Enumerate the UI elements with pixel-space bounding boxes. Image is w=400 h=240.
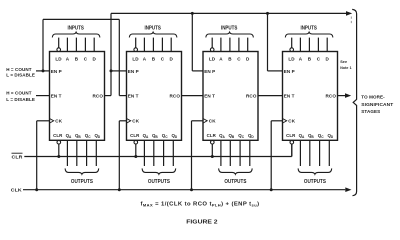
- svg-text:LD: LD: [209, 56, 216, 61]
- wire RCO1 to U2 ENP: [111, 70, 127, 72]
- CLR pin U4: [290, 140, 294, 156]
- svg-text:EN P: EN P: [51, 69, 62, 74]
- output stubs U1 (QA-QD): [67, 140, 96, 166]
- wire ENP bus (line A): [111, 11, 352, 16]
- svg-text:EN P: EN P: [204, 69, 215, 74]
- brace to more-significant stages: [352, 9, 356, 195]
- output stubs U4 (QA-QD): [300, 140, 329, 166]
- svg-text:EN T: EN T: [284, 94, 295, 99]
- svg-text:RCO: RCO: [92, 94, 103, 99]
- CK wire U4: [270, 121, 283, 191]
- svg-text:OUTPUTS: OUTPUTS: [304, 179, 327, 185]
- wire ENP bus to U3 ENP: [192, 13, 203, 71]
- wire U4 RCO out: [338, 93, 352, 98]
- svg-text:CLR: CLR: [286, 133, 296, 138]
- svg-text:EN P: EN P: [128, 69, 139, 74]
- svg-text:TO MORE-: TO MORE-: [361, 94, 385, 99]
- svg-text:RCO: RCO: [246, 94, 257, 99]
- svg-text:INPUTS: INPUTS: [67, 25, 84, 31]
- svg-text:OUTPUTS: OUTPUTS: [224, 179, 247, 185]
- svg-text:C: C: [317, 56, 321, 61]
- svg-text:CLR: CLR: [130, 133, 140, 138]
- svg-text:CLR: CLR: [207, 133, 217, 138]
- svg-text:B: B: [152, 56, 156, 61]
- svg-text:RCO: RCO: [325, 94, 336, 99]
- note: See Note 1: [340, 59, 352, 70]
- wire line B (control to U2 ENT): [43, 18, 119, 20]
- caption FIGURE 2: [186, 220, 217, 226]
- CK wire U3: [190, 121, 203, 191]
- ENP enable label: [6, 67, 35, 78]
- svg-text:D: D: [169, 56, 173, 61]
- wire ENP control riser: [42, 19, 44, 71]
- outputs brace U2: [142, 168, 176, 184]
- counter U1: [50, 52, 105, 141]
- input stubs U1 (LD bubble, A-D): [57, 38, 94, 52]
- input stubs U2 (LD bubble, A-D): [134, 38, 171, 52]
- counter U3: [203, 52, 258, 141]
- svg-text:LD: LD: [132, 56, 139, 61]
- svg-text:SIGNIFICANT: SIGNIFICANT: [361, 102, 393, 107]
- svg-text:INPUTS: INPUTS: [221, 25, 238, 31]
- svg-text:OUTPUTS: OUTPUTS: [71, 179, 94, 185]
- svg-text:EN P: EN P: [284, 69, 295, 74]
- svg-text:INPUTS: INPUTS: [144, 25, 161, 31]
- svg-text:A: A: [299, 56, 303, 61]
- svg-text:C: C: [161, 56, 165, 61]
- svg-text:See: See: [340, 59, 348, 64]
- counter U4: [283, 52, 338, 141]
- CK wire U2: [118, 121, 127, 191]
- outputs brace U3: [219, 168, 253, 184]
- svg-text:CK: CK: [209, 119, 216, 124]
- CK wire U1: [35, 121, 49, 191]
- svg-text:D: D: [246, 56, 250, 61]
- svg-text:B: B: [308, 56, 312, 61]
- CLR pin U2: [134, 140, 138, 158]
- CLR pin U3: [211, 140, 215, 158]
- svg-text:CK: CK: [55, 119, 62, 124]
- svg-text:LD: LD: [55, 56, 62, 61]
- outputs brace U1: [65, 168, 99, 184]
- svg-text:C: C: [237, 56, 241, 61]
- CLK label: [11, 188, 22, 194]
- svg-text:B: B: [228, 56, 232, 61]
- svg-text:STAGES: STAGES: [361, 109, 380, 114]
- CLR bus: [24, 144, 292, 157]
- svg-text:CK: CK: [288, 119, 295, 124]
- svg-text:LD: LD: [288, 56, 295, 61]
- svg-text:A: A: [143, 56, 147, 61]
- svg-text:A: A: [66, 56, 70, 61]
- svg-text:Note 1: Note 1: [340, 65, 352, 70]
- counter U2: [127, 52, 182, 141]
- svg-text:EN T: EN T: [51, 94, 62, 99]
- CLK bus: [23, 187, 352, 192]
- node RCO1-ENP2 junction: [110, 69, 113, 72]
- svg-text:D: D: [92, 56, 96, 61]
- CLR pin U1: [57, 140, 61, 158]
- svg-text:RCO: RCO: [169, 94, 180, 99]
- ENT enable label: [6, 91, 35, 103]
- wire ENT control to U1 ENT: [36, 95, 50, 97]
- svg-text:L = DISABLE: L = DISABLE: [6, 97, 35, 102]
- wire U2 ENT riser: [119, 19, 126, 95]
- inputs brace U1: [52, 25, 100, 37]
- wire ENP control to U1 ENP: [36, 70, 50, 72]
- svg-text:CLR: CLR: [53, 133, 63, 138]
- inputs brace U4: [285, 25, 333, 37]
- svg-text:H = COUNT: H = COUNT: [6, 67, 32, 72]
- input stubs U3 (LD bubble, A-D): [210, 38, 247, 52]
- output stubs U3 (QA-QD): [221, 140, 250, 166]
- svg-text:C: C: [84, 56, 88, 61]
- wire U3 RCO to U4 ENT: [258, 95, 283, 97]
- formula fMAX: [141, 201, 260, 207]
- inputs brace U2: [129, 25, 177, 37]
- node ENP control junction: [42, 69, 45, 72]
- inputs brace U3: [206, 25, 254, 37]
- svg-text:D: D: [325, 56, 329, 61]
- svg-text:B: B: [75, 56, 79, 61]
- svg-text:CK: CK: [132, 119, 139, 124]
- svg-text:INPUTS: INPUTS: [300, 25, 317, 31]
- wire ENP bus to U4 ENP: [268, 13, 283, 71]
- svg-text:CLK: CLK: [11, 188, 22, 194]
- input stubs U4 (LD bubble, A-D): [290, 38, 327, 52]
- svg-text:FIGURE 2: FIGURE 2: [186, 220, 217, 226]
- CLR label: [12, 153, 23, 160]
- node ENP bus to U4: [266, 12, 269, 15]
- svg-text:H = COUNT: H = COUNT: [6, 91, 32, 96]
- dashed leader to note 1: [350, 17, 352, 25]
- outputs brace U4: [298, 168, 332, 184]
- svg-text:fMAX = 1/(CLK to RCO tPLH) + (: fMAX = 1/(CLK to RCO tPLH) + (ENP tsu): [141, 201, 260, 207]
- svg-text:EN T: EN T: [204, 94, 215, 99]
- node ENP bus to U3: [191, 12, 194, 15]
- label TO MORE-SIGNIFICANT STAGES: [361, 94, 393, 114]
- svg-text:CLR: CLR: [12, 154, 23, 160]
- svg-text:EN T: EN T: [128, 94, 139, 99]
- wire U2 RCO to U3 ENT: [182, 95, 204, 97]
- svg-text:L = DISABLE: L = DISABLE: [6, 72, 35, 77]
- output stubs U2 (QA-QD): [144, 140, 173, 166]
- svg-text:OUTPUTS: OUTPUTS: [148, 179, 171, 185]
- wire U1 RCO riser: [105, 13, 112, 95]
- svg-text:A: A: [219, 56, 223, 61]
